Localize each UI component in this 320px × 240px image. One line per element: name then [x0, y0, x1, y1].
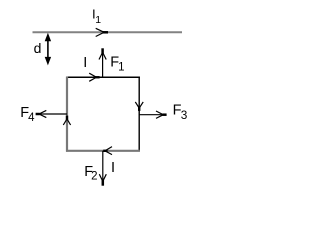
force arrow F2 (down from bottom side) — [99, 151, 106, 186]
svg-text:2: 2 — [91, 170, 97, 182]
force arrow F1 (up from top side) — [99, 48, 106, 77]
svg-text:I: I — [111, 160, 115, 176]
dimension arrow d (distance wire to loop) — [45, 33, 51, 66]
force arrow F3 (right from right side) — [139, 111, 166, 118]
arrowhead I1 current direction on wire — [96, 28, 108, 36]
loop bottom side — [66, 150, 140, 152]
svg-text:3: 3 — [181, 108, 188, 122]
label F1 — [110, 54, 124, 73]
svg-text:1: 1 — [118, 61, 124, 73]
current arrow on right side (I downward) — [135, 102, 143, 111]
loop left side — [66, 77, 68, 152]
current arrow on left side (I upward) — [63, 116, 70, 125]
label F2 — [84, 164, 97, 182]
force arrow F4 (left from left side) — [36, 110, 67, 117]
wire W1 (long straight wire carrying I1) — [33, 31, 183, 33]
svg-text:d: d — [34, 40, 42, 56]
current arrow on top side (I to the right) — [89, 73, 99, 81]
loop top side — [66, 76, 140, 78]
label F4 — [20, 105, 35, 124]
svg-text:1: 1 — [95, 14, 101, 26]
loop right side — [138, 77, 140, 152]
svg-text:4: 4 — [28, 112, 35, 124]
svg-text:I: I — [83, 55, 87, 71]
current arrow on bottom side (I to the left) — [103, 147, 112, 155]
label F3 — [173, 102, 188, 122]
label I1 — [92, 6, 101, 26]
